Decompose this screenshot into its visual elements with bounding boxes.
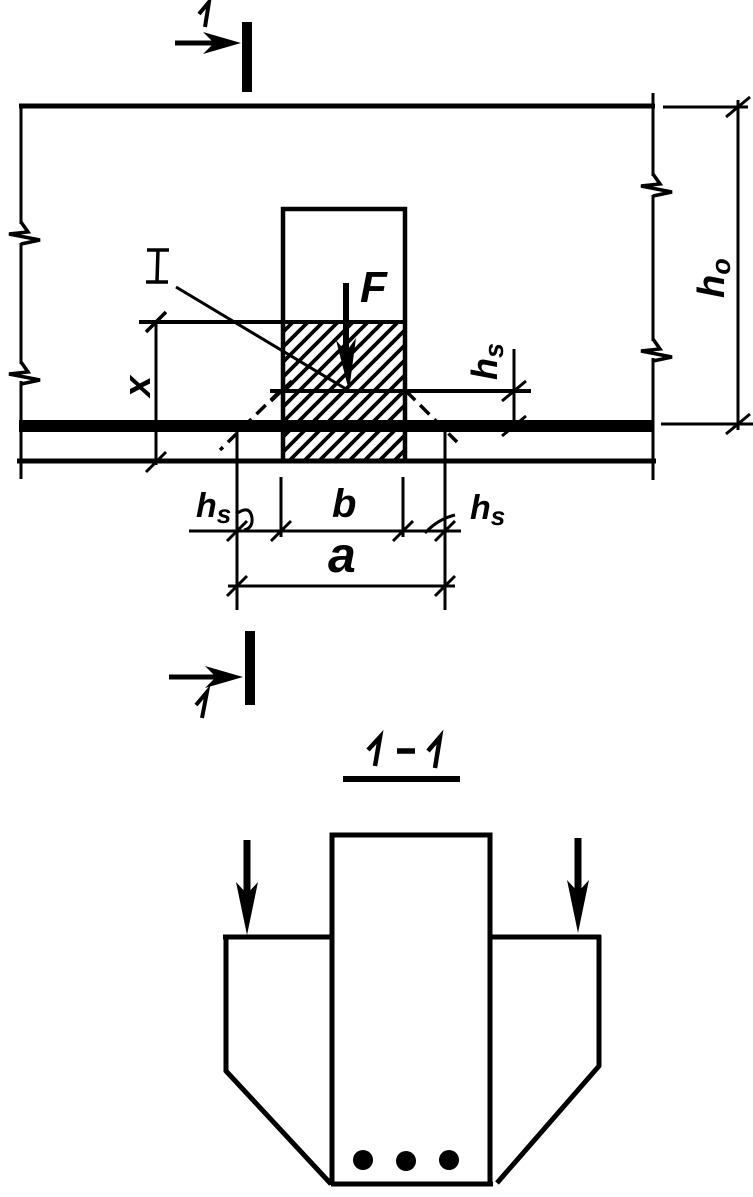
svg-text:hs: hs (196, 487, 231, 529)
section bottom line (331, 1182, 493, 1187)
extension line a-left (236, 430, 239, 610)
h0 dimension line (737, 100, 740, 430)
x dimension line (155, 322, 158, 465)
wall right break mark lower (641, 339, 672, 361)
column U outline (283, 209, 405, 461)
dimension line b row (189, 530, 461, 533)
reinforcement thick bar (19, 420, 653, 432)
svg-text:hs: hs (464, 343, 509, 380)
flange top right (490, 935, 601, 940)
section column right edge lower (488, 937, 493, 1185)
rebar dot 2 (396, 1151, 416, 1171)
section column left edge lower (330, 937, 335, 1185)
svg-text:b: b (332, 482, 356, 526)
hs vert tick top (502, 381, 526, 401)
svg-text:F: F (360, 263, 388, 312)
section column outline (332, 835, 490, 937)
tick a right (435, 576, 455, 596)
wall left edge (20, 104, 23, 479)
hook right (425, 515, 455, 533)
x dim extension / hatch top line (139, 320, 405, 324)
svg-text:a: a (328, 527, 356, 583)
label I (146, 250, 169, 282)
top section mark arrow (175, 32, 241, 54)
slab bottom line (17, 459, 656, 464)
leader line I (176, 287, 351, 392)
svg-text:hs: hs (470, 489, 505, 531)
wall left break mark lower (9, 362, 40, 384)
force arrow F (336, 283, 356, 391)
dashed spread line left (220, 391, 280, 450)
rebar dot 1 (353, 1150, 373, 1170)
x dim tick bottom (146, 452, 166, 472)
top section mark label 1 (199, 2, 209, 27)
tick b row 1 (227, 521, 247, 541)
load arrow left (236, 840, 258, 935)
tick b row 4 (435, 521, 455, 541)
tick b row 2 (271, 521, 291, 541)
bearing bottom line (270, 389, 531, 393)
bottom section mark label 1 (196, 692, 207, 718)
dimension line a (228, 585, 455, 588)
rebar dot 3 (439, 1150, 459, 1170)
extension line b-right (402, 477, 405, 537)
tick b row 3 (393, 521, 413, 541)
bottom section mark arrow (169, 666, 243, 688)
wall right break mark upper (641, 174, 672, 196)
hs vertical dimension line (513, 349, 516, 430)
tick at bearing line left junction (271, 381, 292, 401)
top section mark bar (242, 22, 252, 92)
bottom section mark bar (245, 631, 255, 705)
extension line b-left (280, 477, 283, 537)
wall right break edge (652, 93, 655, 480)
extension line a-right (444, 430, 447, 610)
flange top left (223, 935, 332, 940)
flange outer edge right and chamfer (497, 935, 599, 1183)
hs vert tick bottom (502, 416, 526, 436)
hook left (236, 510, 252, 530)
h0 top extension line (663, 106, 748, 109)
wall left break mark upper (9, 222, 40, 244)
h0 bottom extension line (661, 423, 753, 426)
svg-text:x: x (117, 374, 159, 399)
load arrow right (567, 838, 589, 933)
svg-text:ho: ho (691, 258, 736, 298)
h0 tick bottom (726, 414, 750, 434)
tick a left (227, 576, 247, 596)
title underline (343, 776, 460, 782)
title 1-1 (368, 737, 380, 766)
hatched compression zone (283, 322, 403, 461)
wall top line (19, 104, 655, 109)
x dim tick top (146, 312, 166, 332)
h0 tick top (726, 97, 750, 117)
dashed spread line right (406, 391, 457, 442)
flange outer edge left and chamfer (226, 935, 331, 1184)
